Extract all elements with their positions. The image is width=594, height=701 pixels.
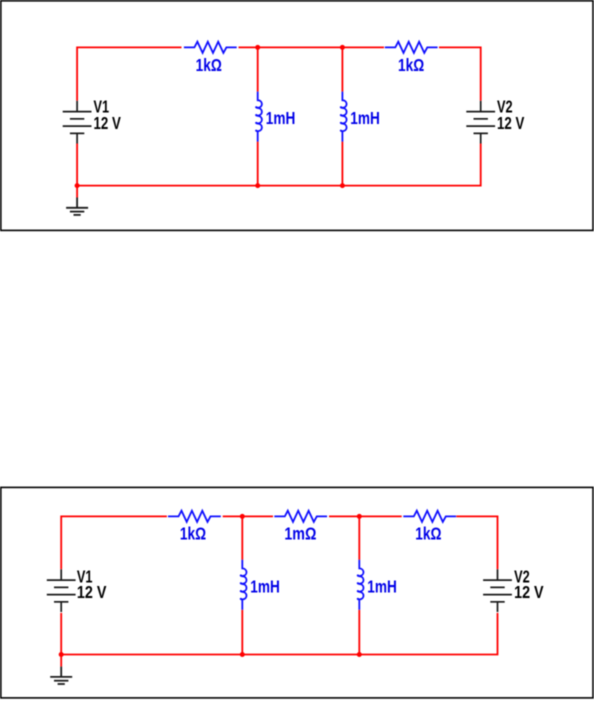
svg-text:1kΩ: 1kΩ [415, 524, 441, 544]
svg-text:1mH: 1mH [350, 108, 380, 128]
svg-text:1mΩ: 1mΩ [284, 524, 316, 544]
svg-text:1mH: 1mH [367, 577, 397, 597]
svg-text:12 V: 12 V [497, 113, 525, 133]
svg-text:12 V: 12 V [94, 113, 122, 133]
svg-text:1mH: 1mH [266, 108, 296, 128]
svg-text:12 V: 12 V [514, 582, 544, 602]
svg-text:1kΩ: 1kΩ [180, 524, 206, 544]
svg-text:12 V: 12 V [77, 582, 107, 602]
svg-text:1mH: 1mH [250, 577, 279, 597]
svg-text:1kΩ: 1kΩ [196, 55, 222, 75]
svg-text:1kΩ: 1kΩ [398, 55, 424, 75]
